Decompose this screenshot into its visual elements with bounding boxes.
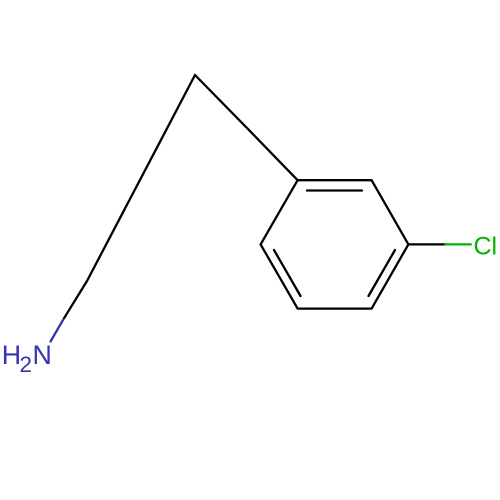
bond N-C1: blue half from N bbox=[51, 318, 65, 342]
aromatic inner line left-bottom bbox=[274, 250, 301, 296]
aromatic inner line top bbox=[307, 189, 362, 191]
wire bbox=[87, 75, 446, 309]
bond C-Cl black half bbox=[408, 243, 445, 245]
bond C-Cl green half bbox=[446, 243, 471, 245]
svg-text:2: 2 bbox=[20, 352, 33, 377]
aromatic inner line bottom-right bbox=[369, 250, 396, 296]
chain: C1 up to peak C4 (3 nearly collinear bonds) bbox=[87, 75, 195, 281]
bond N-C1: black half to C1 bbox=[64, 281, 87, 318]
svg-text:H: H bbox=[2, 340, 21, 370]
peak down to ring TL vertex bbox=[195, 75, 298, 180]
benzene ring outline bbox=[261, 180, 409, 308]
svg-text:Cl: Cl bbox=[474, 233, 498, 261]
svg-text:N: N bbox=[33, 340, 52, 370]
